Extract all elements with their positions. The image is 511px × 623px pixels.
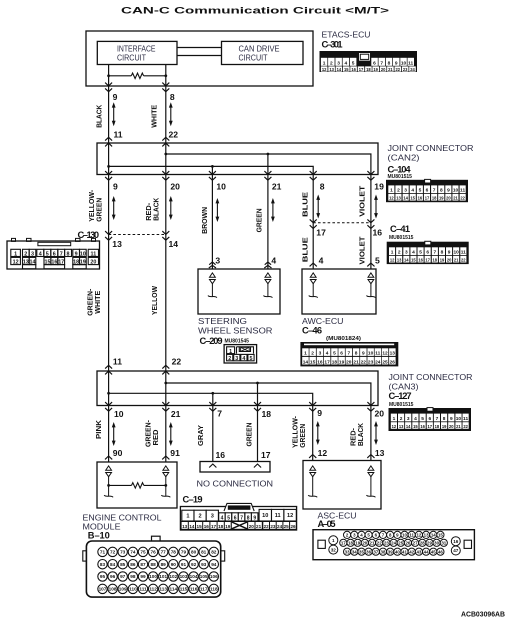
svg-text:2: 2 bbox=[397, 188, 400, 194]
svg-text:20: 20 bbox=[449, 424, 454, 429]
svg-text:118: 118 bbox=[210, 587, 218, 592]
wire YELLOW-GREEN pin9 to pin12 bbox=[312, 406, 314, 461]
joint connector CAN3 box bbox=[97, 371, 378, 406]
svg-text:101: 101 bbox=[159, 574, 167, 579]
svg-text:4: 4 bbox=[414, 416, 417, 422]
svg-text:12: 12 bbox=[318, 448, 328, 458]
svg-text:7: 7 bbox=[240, 516, 243, 522]
svg-text:44: 44 bbox=[424, 549, 429, 554]
svg-text:99: 99 bbox=[140, 574, 146, 579]
svg-text:8: 8 bbox=[67, 251, 70, 257]
svg-text:GREEN: GREEN bbox=[298, 424, 307, 448]
svg-text:19: 19 bbox=[225, 524, 231, 529]
svg-text:A–05: A–05 bbox=[318, 519, 336, 529]
svg-text:80: 80 bbox=[191, 550, 197, 555]
svg-text:10: 10 bbox=[262, 513, 268, 519]
CAN2 upper bus bbox=[166, 154, 371, 175]
svg-text:24: 24 bbox=[391, 540, 396, 545]
svg-text:116: 116 bbox=[190, 587, 198, 592]
svg-text:17: 17 bbox=[324, 359, 330, 365]
svg-text:9: 9 bbox=[395, 60, 398, 66]
svg-text:81: 81 bbox=[201, 550, 207, 555]
svg-text:76: 76 bbox=[150, 550, 156, 555]
svg-text:43: 43 bbox=[416, 549, 421, 554]
svg-text:GREEN: GREEN bbox=[255, 208, 264, 232]
svg-text:97: 97 bbox=[120, 574, 126, 579]
svg-text:8: 8 bbox=[441, 250, 444, 256]
svg-text:20: 20 bbox=[362, 540, 367, 545]
svg-text:16: 16 bbox=[420, 424, 425, 429]
svg-text:21: 21 bbox=[388, 67, 393, 72]
svg-text:16: 16 bbox=[418, 258, 423, 263]
svg-text:2: 2 bbox=[400, 416, 403, 422]
svg-text:37: 37 bbox=[373, 549, 378, 554]
svg-text:15: 15 bbox=[411, 258, 416, 263]
svg-text:17: 17 bbox=[425, 258, 430, 263]
svg-text:8: 8 bbox=[170, 92, 175, 102]
svg-text:22: 22 bbox=[461, 258, 466, 263]
svg-text:115: 115 bbox=[180, 587, 188, 592]
svg-text:C–19: C–19 bbox=[183, 494, 203, 504]
svg-text:2: 2 bbox=[24, 251, 27, 257]
pin 4 arrow bbox=[264, 262, 271, 268]
CAN2 lower bus bbox=[109, 166, 314, 174]
CAN2 bottom pin arrow bbox=[264, 171, 271, 180]
wire pin22 through box bbox=[165, 371, 167, 406]
connector C-301 bbox=[320, 51, 418, 72]
svg-text:8: 8 bbox=[440, 188, 443, 194]
svg-text:24: 24 bbox=[410, 67, 415, 72]
svg-text:110: 110 bbox=[129, 587, 137, 592]
svg-text:15: 15 bbox=[310, 359, 316, 365]
svg-text:14: 14 bbox=[189, 524, 195, 529]
svg-text:94: 94 bbox=[211, 562, 217, 567]
svg-text:5: 5 bbox=[421, 416, 424, 422]
svg-text:JOINT CONNECTOR: JOINT CONNECTOR bbox=[388, 143, 474, 153]
svg-text:13: 13 bbox=[424, 533, 429, 538]
svg-text:(CAN2): (CAN2) bbox=[388, 153, 420, 163]
svg-text:AMP: AMP bbox=[235, 506, 244, 510]
svg-text:AWC-ECU: AWC-ECU bbox=[302, 316, 344, 326]
svg-text:26: 26 bbox=[390, 359, 396, 365]
CAN3 pin 11 arrow bbox=[105, 365, 112, 374]
svg-text:B–10: B–10 bbox=[88, 531, 110, 541]
svg-text:9: 9 bbox=[447, 188, 450, 194]
svg-text:1: 1 bbox=[323, 60, 326, 66]
svg-text:14: 14 bbox=[337, 67, 342, 72]
connector C-104 bbox=[386, 179, 468, 202]
resistor R2 zigzag bbox=[132, 483, 144, 488]
pin 91 arrow bbox=[162, 456, 169, 459]
svg-text:16: 16 bbox=[373, 228, 383, 238]
svg-text:86: 86 bbox=[130, 562, 136, 567]
svg-text:11: 11 bbox=[408, 60, 413, 66]
svg-text:MU801515: MU801515 bbox=[389, 235, 414, 241]
svg-text:7: 7 bbox=[217, 409, 222, 419]
svg-text:11: 11 bbox=[460, 188, 465, 194]
svg-text:15: 15 bbox=[45, 260, 51, 266]
svg-text:3: 3 bbox=[319, 351, 322, 357]
svg-text:21: 21 bbox=[456, 424, 461, 429]
svg-text:9: 9 bbox=[113, 182, 118, 192]
svg-text:BROWN: BROWN bbox=[200, 207, 209, 234]
wire YELLOW-GREEN pin9 to pin13 bbox=[108, 175, 110, 235]
svg-text:25: 25 bbox=[382, 359, 388, 365]
CAN3 pin7 stub bbox=[212, 393, 214, 405]
svg-text:21: 21 bbox=[453, 196, 458, 201]
svg-text:42: 42 bbox=[409, 549, 414, 554]
svg-text:11: 11 bbox=[275, 513, 281, 519]
svg-text:GRAY: GRAY bbox=[196, 425, 205, 446]
svg-text:2: 2 bbox=[311, 351, 314, 357]
junction dots bbox=[164, 153, 167, 156]
svg-text:12: 12 bbox=[392, 424, 397, 429]
svg-text:78: 78 bbox=[171, 550, 177, 555]
svg-text:3: 3 bbox=[31, 251, 34, 257]
termination in ASC bbox=[308, 466, 317, 497]
svg-text:6: 6 bbox=[340, 351, 343, 357]
svg-text:C–46: C–46 bbox=[302, 326, 322, 336]
svg-text:18: 18 bbox=[433, 258, 438, 263]
CAN2 bottom pin arrow bbox=[310, 171, 317, 180]
steering wheel sensor box bbox=[198, 269, 280, 314]
svg-text:1: 1 bbox=[390, 188, 393, 194]
pin 90 arrow bbox=[105, 456, 112, 459]
svg-text:3: 3 bbox=[211, 514, 214, 520]
svg-text:13: 13 bbox=[390, 351, 396, 357]
svg-text:91: 91 bbox=[170, 448, 180, 458]
svg-text:13: 13 bbox=[23, 260, 29, 266]
svg-text:4: 4 bbox=[411, 188, 414, 194]
svg-text:9: 9 bbox=[253, 516, 256, 522]
pin 4 arrow bbox=[310, 263, 317, 266]
svg-text:20: 20 bbox=[447, 258, 452, 263]
svg-text:100: 100 bbox=[149, 574, 157, 579]
svg-text:32: 32 bbox=[331, 547, 337, 552]
svg-text:88: 88 bbox=[150, 562, 156, 567]
svg-text:WHITE: WHITE bbox=[93, 291, 102, 314]
svg-text:16: 16 bbox=[418, 196, 423, 201]
svg-text:5: 5 bbox=[375, 256, 380, 266]
svg-text:84: 84 bbox=[110, 562, 116, 567]
svg-text:19: 19 bbox=[80, 260, 86, 266]
svg-text:20: 20 bbox=[381, 67, 386, 72]
svg-text:22: 22 bbox=[377, 540, 382, 545]
svg-text:18: 18 bbox=[435, 424, 440, 429]
svg-text:CIRCUIT: CIRCUIT bbox=[239, 53, 269, 63]
svg-text:17: 17 bbox=[58, 260, 64, 266]
svg-text:5: 5 bbox=[227, 516, 230, 522]
engine control module box bbox=[97, 462, 177, 508]
svg-text:95: 95 bbox=[100, 574, 106, 579]
svg-text:106: 106 bbox=[210, 574, 218, 579]
svg-text:8: 8 bbox=[320, 182, 325, 192]
pin 8 arrow bbox=[162, 83, 169, 92]
svg-text:4: 4 bbox=[326, 351, 329, 357]
svg-text:C–41: C–41 bbox=[390, 224, 410, 234]
svg-text:17: 17 bbox=[261, 450, 271, 460]
svg-text:92: 92 bbox=[191, 562, 197, 567]
svg-text:72: 72 bbox=[110, 550, 116, 555]
svg-text:15: 15 bbox=[197, 524, 203, 529]
svg-text:18: 18 bbox=[366, 67, 371, 72]
svg-text:(MU801824): (MU801824) bbox=[326, 336, 361, 342]
svg-text:7: 7 bbox=[380, 60, 383, 66]
svg-text:10: 10 bbox=[368, 351, 374, 357]
ASC-ECU box bbox=[303, 461, 381, 510]
svg-text:13: 13 bbox=[112, 239, 122, 249]
svg-text:24: 24 bbox=[277, 524, 283, 529]
svg-text:18: 18 bbox=[218, 524, 224, 529]
svg-text:14: 14 bbox=[431, 533, 436, 538]
CAN3 bottom pin arrow bbox=[309, 402, 316, 411]
connector C-46 bbox=[300, 342, 398, 366]
svg-text:21: 21 bbox=[171, 409, 181, 419]
svg-text:18: 18 bbox=[262, 409, 272, 419]
svg-text:9: 9 bbox=[317, 408, 322, 418]
svg-text:7: 7 bbox=[436, 416, 439, 422]
svg-text:29: 29 bbox=[427, 540, 432, 545]
no connection box bbox=[200, 462, 270, 473]
svg-text:30: 30 bbox=[434, 540, 439, 545]
svg-text:5: 5 bbox=[250, 356, 253, 362]
svg-text:6: 6 bbox=[234, 516, 237, 522]
svg-text:ETACS-ECU: ETACS-ECU bbox=[322, 30, 371, 40]
svg-text:3: 3 bbox=[235, 356, 238, 362]
svg-text:75: 75 bbox=[140, 550, 146, 555]
svg-text:14: 14 bbox=[406, 424, 411, 429]
svg-text:11: 11 bbox=[91, 251, 97, 257]
svg-text:79: 79 bbox=[181, 550, 187, 555]
svg-text:RED: RED bbox=[151, 429, 160, 446]
ECM resistor line bbox=[109, 484, 132, 486]
svg-text:23: 23 bbox=[403, 67, 408, 72]
svg-text:22: 22 bbox=[361, 359, 367, 365]
svg-text:33: 33 bbox=[345, 549, 350, 554]
termination in AWC bbox=[309, 273, 318, 298]
svg-text:47: 47 bbox=[453, 548, 459, 553]
svg-text:17: 17 bbox=[359, 67, 364, 72]
svg-text:28: 28 bbox=[420, 540, 425, 545]
CAN2 pin10 stub bbox=[211, 166, 213, 174]
svg-text:27: 27 bbox=[413, 540, 418, 545]
wire pin11 through box bbox=[108, 371, 110, 406]
svg-text:(CAN3): (CAN3) bbox=[389, 381, 419, 391]
svg-text:20: 20 bbox=[249, 524, 255, 529]
svg-text:5: 5 bbox=[46, 251, 49, 257]
svg-text:6: 6 bbox=[53, 251, 56, 257]
svg-text:22: 22 bbox=[460, 196, 465, 201]
svg-text:16: 16 bbox=[351, 67, 356, 72]
svg-text:87: 87 bbox=[140, 562, 146, 567]
svg-text:17: 17 bbox=[211, 524, 217, 529]
svg-text:3: 3 bbox=[337, 60, 340, 66]
svg-text:C–127: C–127 bbox=[389, 391, 412, 401]
svg-text:GREEN: GREEN bbox=[245, 423, 254, 447]
svg-text:C–301: C–301 bbox=[322, 40, 343, 50]
CAN2 bottom pin arrow bbox=[209, 171, 216, 180]
svg-text:19: 19 bbox=[373, 67, 378, 72]
ETACS-ECU outer box bbox=[86, 31, 313, 86]
svg-text:10: 10 bbox=[216, 182, 226, 192]
wire RED-BLACK pin20 to pin14 bbox=[165, 175, 167, 235]
wire pin11 through box bbox=[108, 143, 110, 175]
svg-text:6: 6 bbox=[373, 60, 376, 66]
svg-text:77: 77 bbox=[161, 550, 167, 555]
svg-text:98: 98 bbox=[130, 574, 136, 579]
svg-text:109: 109 bbox=[119, 587, 127, 592]
svg-text:BLUE: BLUE bbox=[300, 192, 309, 217]
svg-text:90: 90 bbox=[113, 448, 123, 458]
svg-text:91: 91 bbox=[181, 562, 187, 567]
svg-text:12: 12 bbox=[390, 258, 395, 263]
CAN2 bottom pin arrow bbox=[367, 171, 374, 180]
svg-text:MU801515: MU801515 bbox=[388, 174, 413, 180]
svg-text:12: 12 bbox=[287, 513, 293, 519]
svg-text:7: 7 bbox=[60, 251, 63, 257]
svg-text:9: 9 bbox=[450, 416, 453, 422]
svg-text:3: 3 bbox=[407, 416, 410, 422]
svg-text:5: 5 bbox=[419, 188, 422, 194]
svg-text:45: 45 bbox=[431, 549, 436, 554]
svg-text:17: 17 bbox=[316, 228, 326, 238]
svg-text:24: 24 bbox=[375, 359, 381, 365]
svg-text:4: 4 bbox=[271, 256, 276, 266]
svg-text:104: 104 bbox=[190, 574, 198, 579]
svg-text:46: 46 bbox=[438, 549, 443, 554]
svg-text:21: 21 bbox=[272, 182, 282, 192]
svg-text:96: 96 bbox=[110, 574, 116, 579]
svg-text:4: 4 bbox=[221, 516, 224, 522]
svg-text:12: 12 bbox=[382, 351, 388, 357]
svg-text:12: 12 bbox=[389, 196, 394, 201]
wire pin22 through box bbox=[165, 143, 167, 175]
svg-text:111: 111 bbox=[139, 587, 147, 592]
svg-text:11: 11 bbox=[409, 533, 414, 538]
wire GREEN pin18 to pin17 bbox=[257, 406, 259, 462]
svg-text:112: 112 bbox=[149, 587, 157, 592]
svg-text:12: 12 bbox=[416, 533, 421, 538]
svg-text:23: 23 bbox=[368, 359, 374, 365]
svg-text:JOINT CONNECTOR: JOINT CONNECTOR bbox=[389, 372, 473, 382]
svg-text:82: 82 bbox=[211, 550, 217, 555]
svg-text:GREEN: GREEN bbox=[94, 198, 103, 222]
svg-text:22: 22 bbox=[172, 357, 182, 367]
svg-text:85: 85 bbox=[120, 562, 126, 567]
termination in sensor bbox=[208, 273, 217, 298]
CAN3 pin18 stub bbox=[257, 383, 259, 406]
svg-text:4: 4 bbox=[319, 256, 324, 266]
svg-text:4: 4 bbox=[39, 251, 42, 257]
svg-text:74: 74 bbox=[130, 550, 136, 555]
svg-text:18: 18 bbox=[432, 196, 437, 201]
svg-text:89: 89 bbox=[161, 562, 167, 567]
svg-text:38: 38 bbox=[381, 549, 386, 554]
svg-text:22: 22 bbox=[463, 424, 468, 429]
svg-text:83: 83 bbox=[100, 562, 106, 567]
svg-text:BLACK: BLACK bbox=[151, 197, 160, 221]
svg-text:10: 10 bbox=[454, 250, 460, 256]
CAN2 pin21 stub bbox=[267, 154, 269, 175]
svg-text:13: 13 bbox=[397, 258, 402, 263]
svg-text:12: 12 bbox=[322, 67, 327, 72]
svg-text:10: 10 bbox=[114, 409, 124, 419]
svg-text:23: 23 bbox=[270, 524, 276, 529]
svg-text:5: 5 bbox=[419, 250, 422, 256]
svg-text:7: 7 bbox=[433, 250, 436, 256]
connector C-130 bbox=[7, 238, 100, 269]
CAN3 bottom pin arrow bbox=[367, 402, 374, 411]
svg-text:93: 93 bbox=[201, 562, 207, 567]
svg-text:11: 11 bbox=[113, 357, 122, 367]
wire RED-BLACK pin20 to pin13 bbox=[370, 406, 372, 461]
svg-text:16: 16 bbox=[317, 359, 323, 365]
svg-text:2: 2 bbox=[398, 250, 401, 256]
svg-text:19: 19 bbox=[355, 540, 360, 545]
svg-text:22: 22 bbox=[264, 524, 270, 529]
svg-text:PINK: PINK bbox=[94, 419, 103, 439]
pin 9 arrow bbox=[105, 83, 112, 92]
svg-text:MU801545: MU801545 bbox=[225, 339, 250, 345]
svg-text:BLACK: BLACK bbox=[94, 104, 103, 128]
wire WHITE pin8 to pin22 bbox=[165, 86, 167, 143]
svg-text:26: 26 bbox=[290, 524, 296, 529]
connector boundary C-41 dashed bbox=[313, 222, 371, 224]
svg-text:8: 8 bbox=[388, 60, 391, 66]
terminating resistor line bbox=[109, 75, 132, 77]
connector A-05 bbox=[313, 530, 474, 560]
svg-text:BLUE: BLUE bbox=[300, 237, 309, 262]
wire from interface to pin 8 bbox=[165, 65, 167, 87]
svg-text:15: 15 bbox=[344, 67, 349, 72]
svg-text:17: 17 bbox=[428, 424, 433, 429]
svg-text:13: 13 bbox=[399, 424, 404, 429]
svg-text:13: 13 bbox=[329, 67, 334, 72]
pin 5 arrow bbox=[367, 263, 374, 266]
CAN2 pin 22 arrow bbox=[162, 137, 169, 146]
svg-text:6: 6 bbox=[428, 416, 431, 422]
connector C-19 bbox=[180, 503, 296, 530]
svg-text:5: 5 bbox=[333, 351, 336, 357]
svg-text:3: 3 bbox=[405, 250, 408, 256]
svg-text:1: 1 bbox=[304, 351, 307, 357]
CAN3 bottom pin arrow bbox=[105, 402, 112, 411]
svg-text:20: 20 bbox=[446, 196, 451, 201]
svg-text:3: 3 bbox=[215, 256, 220, 266]
pin 12 arrow bbox=[309, 455, 316, 458]
connector C-41 bbox=[387, 241, 469, 264]
svg-text:108: 108 bbox=[109, 587, 117, 592]
svg-text:19: 19 bbox=[374, 182, 384, 192]
svg-text:10: 10 bbox=[80, 251, 86, 257]
svg-text:1: 1 bbox=[186, 514, 189, 520]
svg-text:21: 21 bbox=[256, 524, 262, 529]
svg-text:13: 13 bbox=[375, 448, 385, 458]
wire BLUE pin8 to pin17 bbox=[312, 175, 314, 223]
svg-text:103: 103 bbox=[180, 574, 188, 579]
connector B-10 bbox=[83, 536, 225, 597]
svg-text:16: 16 bbox=[51, 260, 57, 266]
svg-text:26: 26 bbox=[405, 540, 410, 545]
wire GREEN pin21 to pin4 bbox=[267, 175, 269, 270]
svg-text:13: 13 bbox=[396, 196, 401, 201]
svg-text:102: 102 bbox=[169, 574, 177, 579]
wire VIOLET pin16 to AWC pin5 bbox=[370, 223, 372, 269]
svg-text:21: 21 bbox=[353, 359, 359, 365]
svg-text:10: 10 bbox=[453, 188, 459, 194]
svg-text:8: 8 bbox=[247, 516, 250, 522]
wire YELLOW pin14 to pin22 bbox=[165, 235, 167, 372]
